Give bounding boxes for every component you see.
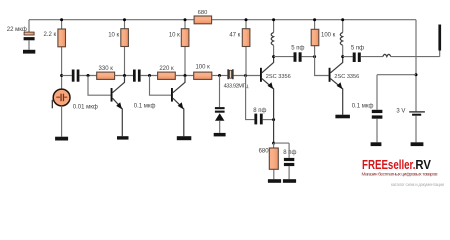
node rail-L2 — [341, 18, 344, 21]
transistor Q2 collector — [173, 76, 185, 93]
svg-text:Магазин бесплатных цифровых то: Магазин бесплатных цифровых товаров — [362, 172, 438, 178]
svg-text:5 пф: 5 пф — [291, 45, 304, 51]
svg-text:2.2 к: 2.2 к — [44, 32, 57, 38]
svg-text:FREEseller.: FREEseller. — [362, 157, 416, 172]
transistor Q2 emitter arrow — [178, 102, 184, 109]
transistor Q3 emitter — [262, 79, 274, 144]
transistor Q4 collector — [331, 57, 343, 73]
wire node A down to Q1 base — [88, 76, 111, 96]
ground under Q4 — [335, 115, 350, 119]
varicap VD1 plates — [215, 107, 225, 109]
resistor R3 10 к leads — [124, 20, 126, 76]
node collector Q3 / L1 — [272, 55, 275, 58]
capacitor C7 5 пф plates — [294, 52, 297, 62]
transistor Q4 emitter — [331, 79, 343, 115]
resistor R6 680 on rail body — [194, 16, 212, 24]
capacitor C2 0.01 мкф plates — [72, 70, 75, 82]
wire C10 to ground — [288, 166, 290, 179]
svg-text:680: 680 — [198, 10, 208, 16]
wire C8 to L3 — [361, 56, 383, 58]
node rail-R5 — [184, 18, 187, 21]
resistor R5 10 к body — [181, 29, 189, 47]
resistor R5 10 к leads — [184, 20, 186, 76]
svg-text:220 к: 220 к — [159, 66, 174, 72]
resistor R9 100 к body — [311, 29, 319, 45]
resistor R3 10 к body — [121, 29, 129, 47]
node C6-emitter — [272, 118, 275, 121]
svg-text:RV: RV — [415, 157, 431, 172]
wire top supply rail left part — [29, 19, 194, 21]
wire C1 to ground — [28, 40, 30, 50]
crystal ZQ1 433.92МГц — [227, 69, 233, 79]
ground under Q2 — [177, 136, 192, 140]
wire node G down to Q4 base — [315, 57, 329, 76]
wire R2 to node B — [115, 75, 133, 77]
ground under varicap — [214, 133, 226, 137]
inductor L3 horizontal coil — [383, 54, 391, 56]
svg-text:2SC 3356: 2SC 3356 — [334, 74, 359, 80]
inductor L1 vertical coil — [273, 20, 275, 33]
node collector Q4 / L2 — [341, 55, 344, 58]
node mic / R1 / C2 — [60, 74, 63, 77]
antenna — [438, 25, 441, 51]
node B collector Q1 — [123, 74, 126, 77]
wire node F down to C6 — [246, 76, 255, 120]
capacitor C1 22 мкф bottom plate — [24, 37, 35, 40]
svg-text:8 пф: 8 пф — [283, 150, 296, 156]
node D collector Q2 — [184, 74, 187, 77]
transistor Q3 collector — [262, 57, 274, 73]
wire C6 to emitter line — [263, 119, 274, 121]
ground under C9 — [371, 142, 382, 146]
wire microphone to ground — [61, 106, 63, 137]
node G base Q4 / R9 — [313, 55, 316, 58]
svg-text:0.1 мкф: 0.1 мкф — [134, 104, 156, 110]
capacitor C8 5 пф plates — [353, 53, 356, 63]
capacitor C3 0.1 мкф plates — [133, 70, 136, 82]
resistor R1 2.2 к body — [58, 29, 66, 47]
node E varicap — [218, 74, 221, 77]
transistor Q2 base bar — [171, 88, 173, 102]
transistor Q3 emitter arrow — [268, 82, 274, 89]
node C base Q2 / R4 — [148, 74, 151, 77]
wire C7 to node G — [302, 56, 315, 58]
capacitor C10 8 пф plates — [284, 158, 294, 161]
node A base Q1 / R2 — [87, 74, 90, 77]
capacitor C6 8 пф plates — [254, 114, 257, 125]
node battery feed branch — [415, 73, 418, 76]
varicap VD1 triangle — [215, 113, 224, 121]
capacitor C9 0.1 мкф plates — [372, 110, 383, 113]
svg-text:10 к: 10 к — [169, 32, 180, 38]
resistor R10 680 body — [269, 148, 278, 169]
resistor R2 330 к body — [97, 72, 115, 79]
node rail-L1 — [272, 18, 275, 21]
wire branch to C9 — [377, 75, 416, 110]
ground under C1 — [23, 50, 35, 54]
svg-text:100 к: 100 к — [195, 65, 210, 71]
svg-text:каталог схем и документации: каталог схем и документации — [391, 182, 445, 187]
capacitor C1 22 мкф electrolytic top plate — [24, 32, 34, 35]
transistor Q2 emitter — [173, 98, 184, 136]
inductor L2 vertical coil — [342, 20, 344, 33]
capacitor C1 22 мкф lead from rail — [28, 20, 30, 32]
resistor R1 2.2 к leads — [61, 20, 63, 89]
wire battery to ground — [415, 116, 417, 143]
wire R7 to crystal — [212, 75, 228, 77]
wire supply rail right drop to battery — [415, 20, 417, 112]
ground under R10 — [268, 179, 281, 183]
transistor Q4 emitter arrow — [337, 82, 343, 89]
resistor R8 47 к body — [242, 29, 250, 47]
svg-text:0.1 мкф: 0.1 мкф — [352, 104, 374, 110]
wire L3 to antenna — [391, 51, 440, 57]
svg-text:10 к: 10 к — [108, 32, 119, 38]
svg-text:330 к: 330 к — [99, 66, 114, 72]
transistor Q1 emitter arrow — [116, 102, 122, 109]
transistor Q1 collector — [113, 76, 125, 93]
svg-text:0.01 мкф: 0.01 мкф — [73, 105, 98, 111]
transistor Q4 2SC 3356 base bar — [329, 68, 331, 82]
ground under microphone — [55, 137, 68, 141]
wire collector Q4 to C8 — [343, 56, 353, 58]
svg-text:22 мкф: 22 мкф — [7, 27, 27, 33]
node rail-R8 — [245, 18, 248, 21]
wire C2 to node A — [79, 75, 96, 77]
resistor R10 680 leads — [273, 143, 275, 179]
wire collector Q3 to C7 — [274, 56, 294, 58]
node rail-R3 — [123, 18, 126, 21]
svg-text:680: 680 — [259, 149, 270, 155]
wire node to C2 — [62, 75, 72, 77]
node emitter Q3 / R10 / C10 — [272, 142, 275, 145]
svg-text:2SC 3356: 2SC 3356 — [266, 74, 291, 80]
wire node E down to varicap — [219, 76, 221, 108]
wire C3 to node C — [141, 75, 158, 77]
battery GB1 3 V plates — [409, 111, 425, 112]
ground under Q1 — [117, 136, 129, 139]
wire node C down to Q2 base — [150, 76, 172, 96]
svg-text:100 к: 100 к — [321, 32, 336, 38]
microphone BM1 electret — [53, 89, 70, 106]
ground under C10 — [283, 179, 296, 183]
microphone side bar — [52, 100, 53, 109]
transistor Q1 emitter — [113, 98, 123, 136]
svg-text:5 пф: 5 пф — [351, 45, 364, 51]
svg-text:47 к: 47 к — [229, 32, 240, 38]
node rail-R1 — [60, 18, 63, 21]
resistor R4 220 к body — [158, 72, 176, 79]
wire top supply rail right part — [212, 19, 416, 21]
wire crystal to node F — [234, 75, 260, 77]
svg-text:8 пф: 8 пф — [253, 108, 266, 114]
wire C9 to ground — [376, 119, 378, 143]
resistor R9 100 к leads — [314, 20, 316, 57]
wire varicap to ground — [219, 121, 221, 133]
svg-text:3 V: 3 V — [396, 108, 405, 114]
resistor R8 47 к leads — [245, 20, 247, 76]
wire R4 to node D — [175, 75, 193, 77]
transistor Q3 2SC 3356 base bar — [260, 68, 262, 82]
transistor Q1 base bar — [111, 88, 113, 102]
ground under battery — [411, 142, 424, 146]
resistor R7 100 к body — [194, 72, 212, 79]
wire node to C10 — [274, 143, 290, 158]
node F 47к / crystal / Q3 base — [244, 74, 247, 77]
node rail-R9 — [313, 18, 316, 21]
